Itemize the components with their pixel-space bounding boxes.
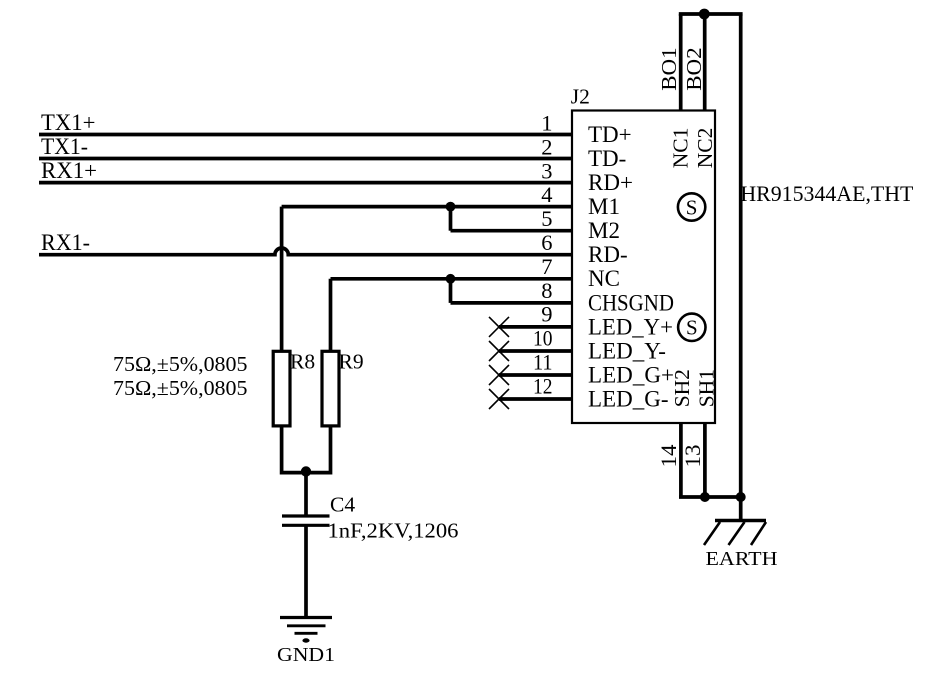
svg-text:S: S <box>686 316 698 340</box>
svg-text:EARTH: EARTH <box>706 548 778 570</box>
svg-text:3: 3 <box>541 158 552 183</box>
svg-text:C4: C4 <box>330 493 355 517</box>
resistor R9 <box>322 351 339 426</box>
svg-text:NC2: NC2 <box>693 128 717 169</box>
svg-text:6: 6 <box>541 230 552 255</box>
svg-text:LED_Y+: LED_Y+ <box>588 314 673 339</box>
wire NC-CHSGND vertical <box>449 279 453 303</box>
no-connect X pin12 <box>489 389 509 409</box>
svg-text:RX1-: RX1- <box>41 230 90 255</box>
wire pin9 LED_Y+ <box>499 325 573 329</box>
wire pin12 LED_G- <box>499 397 573 401</box>
svg-text:BO2: BO2 <box>682 47 706 91</box>
wire right vertical to earth <box>739 14 743 521</box>
junction dot bottom 13 <box>700 492 710 502</box>
svg-text:RD-: RD- <box>588 242 628 267</box>
svg-text:14: 14 <box>656 445 681 468</box>
svg-text:11: 11 <box>533 350 553 375</box>
wire bottom horizontal <box>679 495 741 499</box>
svg-text:M2: M2 <box>588 218 620 243</box>
wire M1M2 to R8 vertical <box>280 207 284 352</box>
earth symbol <box>704 521 766 546</box>
junction dot top <box>699 9 710 20</box>
svg-text:LED_Y-: LED_Y- <box>588 338 666 363</box>
wire RX1+ <box>39 181 573 185</box>
svg-text:7: 7 <box>541 254 552 279</box>
connector J2 body <box>572 111 715 424</box>
svg-text:12: 12 <box>533 373 553 398</box>
capacitor C4 <box>282 516 330 525</box>
wire M1-M2 vertical <box>449 207 453 231</box>
junction dot pin4/pin5 <box>446 202 456 212</box>
resistor R8 <box>273 351 290 426</box>
svg-text:R8: R8 <box>290 350 315 374</box>
wire C4 to GND1 <box>304 525 308 618</box>
svg-text:10: 10 <box>533 326 553 351</box>
svg-text:1nF,2KV,1206: 1nF,2KV,1206 <box>328 519 459 543</box>
no-connect X pin9 <box>489 317 509 337</box>
svg-text:LED_G-: LED_G- <box>588 386 668 411</box>
wire top horizontal <box>679 12 743 16</box>
wire pin4 M1 <box>282 205 573 209</box>
svg-text:SH1: SH1 <box>695 369 719 407</box>
svg-text:NC: NC <box>588 266 620 291</box>
svg-text:TD-: TD- <box>588 146 626 171</box>
shield symbol S1 <box>678 193 705 220</box>
svg-text:BO1: BO1 <box>657 47 681 91</box>
svg-text:GND1: GND1 <box>277 644 335 666</box>
svg-text:SH2: SH2 <box>670 369 694 407</box>
svg-text:13: 13 <box>680 445 705 468</box>
svg-text:HR915344AE,THT: HR915344AE,THT <box>740 181 914 206</box>
wire TX1- <box>39 157 573 161</box>
wire pin14 vertical <box>679 423 683 497</box>
svg-text:2: 2 <box>541 134 552 159</box>
svg-text:9: 9 <box>541 302 552 327</box>
wire pin8 CHSGND <box>451 301 574 305</box>
svg-text:NC1: NC1 <box>669 128 693 169</box>
wire pin11 LED_G+ <box>499 373 573 377</box>
wire BO1 vertical <box>679 14 683 111</box>
svg-text:M1: M1 <box>588 194 620 219</box>
svg-text:R9: R9 <box>339 350 364 374</box>
svg-text:4: 4 <box>541 182 552 207</box>
svg-text:TD+: TD+ <box>588 122 632 147</box>
wire pin7 NC <box>331 277 574 281</box>
shield symbol S2 <box>678 314 705 341</box>
svg-text:5: 5 <box>541 206 552 231</box>
svg-text:TX1-: TX1- <box>41 134 88 159</box>
wire pin5 M2 <box>451 229 574 233</box>
no-connect X pin10 <box>489 341 509 361</box>
wire pin10 LED_Y- <box>499 349 573 353</box>
wire join to C4 <box>304 473 308 517</box>
svg-text:RX1+: RX1+ <box>41 158 97 183</box>
svg-text:8: 8 <box>541 278 552 303</box>
junction dot pin7/pin8 <box>446 274 456 284</box>
svg-text:1: 1 <box>541 111 552 136</box>
svg-text:J2: J2 <box>571 85 590 109</box>
wire TX1+ <box>39 133 573 137</box>
svg-text:75Ω,±5%,0805: 75Ω,±5%,0805 <box>113 376 248 400</box>
wire RX1- with hop <box>39 248 573 255</box>
wire R8 bottom to join <box>282 426 331 473</box>
svg-text:LED_G+: LED_G+ <box>588 362 674 387</box>
svg-text:RD+: RD+ <box>588 170 633 195</box>
svg-text:S: S <box>686 195 698 219</box>
wire pin13 vertical <box>703 423 707 497</box>
svg-text:TX1+: TX1+ <box>41 110 96 135</box>
junction dot cap <box>301 466 311 476</box>
ground GND1 <box>280 618 332 643</box>
svg-text:CHSGND: CHSGND <box>588 290 674 315</box>
wire NC/CHSGND to R9 vertical <box>329 279 333 352</box>
svg-text:75Ω,±5%,0805: 75Ω,±5%,0805 <box>113 352 248 376</box>
wire BO2 vertical <box>703 14 707 111</box>
junction dot bottom earth <box>736 492 746 502</box>
no-connect X pin11 <box>489 365 509 385</box>
